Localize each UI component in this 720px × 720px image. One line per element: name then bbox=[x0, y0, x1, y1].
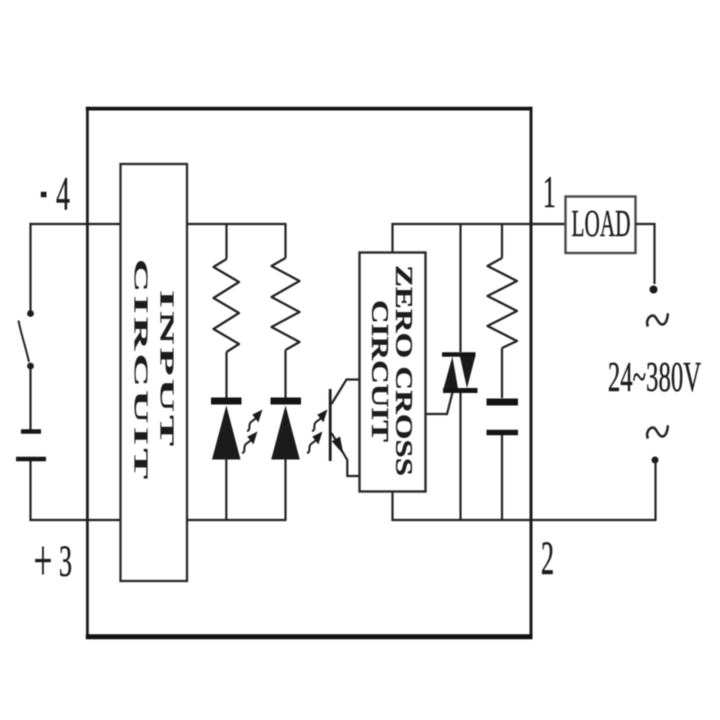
LED D1 lead bottom bbox=[225, 459, 227, 521]
wire zero-cross box top stub bbox=[391, 223, 393, 253]
triac T1 bottom bar bbox=[443, 388, 478, 393]
wire bottom-right rail horizontal bbox=[393, 519, 656, 521]
triac T1 upper lead bbox=[459, 223, 461, 352]
LED D2 triangle bbox=[271, 406, 300, 460]
outer SSR box bottom edge bbox=[86, 634, 533, 639]
wire bottom-left rail horizontal bbox=[30, 519, 287, 521]
triac T1 left triangle bbox=[444, 357, 459, 389]
AC tilde lower bbox=[647, 425, 668, 438]
LED D2 emission arrows bbox=[312, 410, 328, 432]
LED D1 triangle bbox=[212, 406, 241, 460]
snubber resistor R3 lead bottom bbox=[501, 348, 503, 398]
triac T1 lower lead bbox=[459, 392, 461, 521]
switch S1 upper contact dot bbox=[27, 310, 34, 317]
phototransistor Q1 collector lead bbox=[332, 380, 359, 405]
resistor R2 lead top bbox=[284, 223, 286, 258]
resistor R2 zigzag bbox=[272, 258, 300, 350]
svg-text:1: 1 bbox=[543, 168, 556, 218]
input circuit box bbox=[121, 164, 188, 581]
svg-text:+: + bbox=[34, 529, 53, 594]
AC terminal dot upper bbox=[650, 286, 658, 294]
battery B1 top plate bbox=[21, 429, 41, 434]
phototransistor Q1 emitter arrowhead bbox=[332, 437, 344, 455]
triac T1 right triangle bbox=[460, 357, 475, 389]
outer SSR box top edge bbox=[86, 107, 533, 111]
LED D1 cathode bar bbox=[211, 398, 242, 405]
LED D2 cathode bar bbox=[271, 398, 302, 405]
svg-text:4: 4 bbox=[56, 168, 70, 221]
svg-text:24~380V: 24~380V bbox=[608, 354, 701, 400]
resistor R2 lead bottom bbox=[284, 350, 286, 398]
LED D1 emission arrows bbox=[247, 410, 263, 432]
LOAD box bbox=[566, 197, 636, 254]
wire box to LOAD bbox=[531, 223, 566, 225]
phototransistor Q1 base bar bbox=[329, 389, 332, 461]
svg-text:2: 2 bbox=[541, 532, 554, 585]
battery B1 bottom plate bbox=[16, 457, 46, 462]
triac T1 top bar bbox=[442, 352, 476, 357]
wire left vertical rail upper bbox=[29, 223, 31, 311]
resistor R1 lead top bbox=[225, 224, 227, 259]
triac T1 gate lead bbox=[426, 393, 453, 415]
capacitor C1 bottom plate bbox=[487, 430, 519, 436]
LED D2 lead bottom bbox=[284, 459, 286, 521]
wire LOAD to AC terminal bbox=[636, 224, 655, 284]
wire top-right rail horizontal bbox=[393, 223, 566, 225]
wire switch to battery bbox=[29, 368, 31, 430]
resistor R1 lead bottom bbox=[225, 352, 227, 398]
switch S1 lower contact dot bbox=[27, 363, 34, 370]
switch S1 blade bbox=[19, 321, 30, 363]
capacitor C1 lead bottom bbox=[501, 435, 503, 521]
capacitor C1 top plate bbox=[487, 399, 519, 406]
wire zero-cross box bottom stub bbox=[391, 491, 393, 522]
wire battery to bottom rail bbox=[29, 461, 31, 521]
wire top-left rail horizontal bbox=[30, 223, 287, 225]
svg-text:LOAD: LOAD bbox=[571, 203, 630, 245]
AC terminal dot lower bbox=[652, 457, 659, 464]
resistor R1 zigzag bbox=[214, 259, 240, 352]
phototransistor Q1 emitter lead bbox=[332, 433, 359, 476]
outer SSR box left edge bbox=[86, 107, 89, 639]
AC tilde upper bbox=[647, 313, 668, 326]
outer SSR box right edge bbox=[530, 107, 533, 639]
snubber resistor R3 zigzag bbox=[488, 258, 518, 348]
zero cross box bbox=[360, 253, 426, 492]
svg-text:3: 3 bbox=[59, 537, 72, 586]
snubber resistor R3 lead top bbox=[501, 224, 503, 258]
svg-text:CIRCUIT: CIRCUIT bbox=[366, 300, 393, 442]
terminal label minus dash bbox=[41, 192, 47, 198]
svg-text:INPUT: INPUT bbox=[156, 290, 178, 447]
svg-text:ZERO CROSS: ZERO CROSS bbox=[390, 265, 417, 476]
wire AC terminal to bottom rail bbox=[654, 462, 656, 521]
